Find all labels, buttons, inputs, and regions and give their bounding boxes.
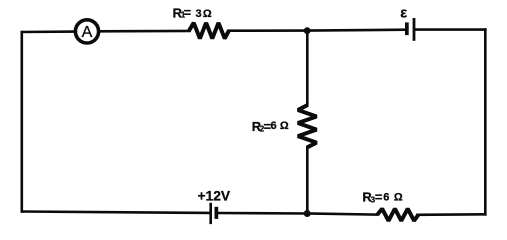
svg-text:Ω: Ω: [203, 8, 212, 20]
battery E (emf source): [405, 18, 415, 41]
label R3 = 6 ohm: [362, 189, 403, 204]
wire battery +12V to bottom-left corner: [22, 212, 210, 213]
resistor R3: [377, 209, 418, 221]
svg-text:A: A: [82, 24, 93, 41]
wire battery E to top-right corner: [415, 28, 485, 31]
wire right side: [484, 30, 487, 215]
wire top: left corner to ammeter: [22, 30, 75, 33]
svg-text:ε: ε: [400, 6, 407, 22]
wire middle branch upper: [306, 31, 309, 106]
svg-text:3: 3: [196, 8, 202, 20]
resistor R2: [298, 105, 317, 147]
svg-text:+12V: +12V: [198, 189, 231, 204]
wire R1 to node A: [229, 29, 308, 32]
svg-text:=: =: [375, 189, 383, 204]
label R1 = 3 ohm: [173, 5, 212, 20]
wire bottom-right corner to R3: [418, 213, 486, 216]
wire ammeter to R1: [100, 30, 190, 33]
wire left side: [20, 32, 23, 212]
battery +12V: [209, 203, 218, 224]
resistor R1: [189, 23, 229, 39]
svg-text:=: =: [184, 5, 192, 20]
node A (top junction dot): [304, 27, 311, 34]
svg-text:Ω: Ω: [394, 191, 403, 203]
wire middle branch lower: [306, 147, 309, 214]
wire node B to battery +12V: [218, 212, 307, 215]
svg-text:6: 6: [271, 120, 277, 132]
wire node A to battery E: [307, 28, 405, 31]
label R2 = 6 ohm: [252, 119, 289, 134]
node B (bottom junction dot): [304, 210, 311, 217]
svg-text:6: 6: [383, 191, 389, 203]
wire R3 to node B: [307, 214, 377, 215]
svg-text:Ω: Ω: [280, 120, 289, 132]
ammeter A: [75, 20, 98, 43]
